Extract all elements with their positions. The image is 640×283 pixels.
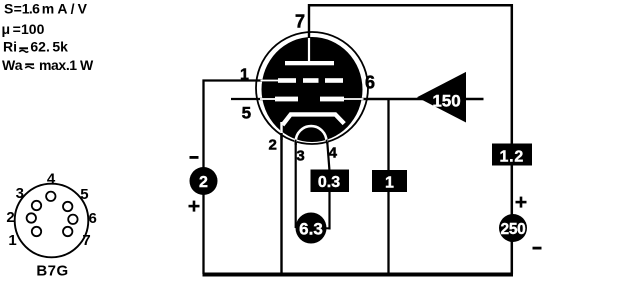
tube grid2 leads: [260, 98, 276, 100]
svg-text:1: 1: [240, 66, 249, 83]
svg-text:A/V: A/V: [57, 0, 90, 16]
load triangle 150: [417, 72, 466, 123]
tube grid1 dashes: [278, 78, 343, 83]
battery V1 plus sign: [189, 201, 200, 212]
wire left vertical through battery 2: [202, 80, 204, 275]
resistor box 1: [372, 170, 407, 192]
svg-text:6: 6: [365, 73, 375, 93]
B7G base outline: [15, 184, 89, 258]
svg-text:1.2: 1.2: [499, 148, 524, 165]
svg-text:1.6: 1.6: [22, 0, 40, 16]
svg-text:2: 2: [199, 174, 208, 191]
wire stub 6.3 right: [324, 227, 331, 229]
battery V1 minus sign: [190, 156, 199, 159]
battery V2 plus sign: [516, 197, 527, 208]
svg-text:1: 1: [8, 232, 16, 249]
svg-text:3: 3: [16, 185, 24, 202]
svg-text:6: 6: [89, 210, 97, 227]
svg-text:7: 7: [295, 11, 305, 31]
wire bottom rail: [203, 273, 514, 277]
svg-text:2: 2: [269, 136, 277, 153]
wire heater pin4 vertical to 0.3 box: [327, 132, 330, 171]
wire from 0.3 box down to 6.3 source: [328, 191, 330, 230]
resistor box 1.2: [492, 144, 532, 166]
svg-text:2: 2: [6, 209, 14, 226]
B7G pin hole 6: [68, 215, 77, 224]
B7G pin hole 4: [46, 192, 55, 201]
svg-text:Wa: Wa: [2, 57, 23, 73]
wire grid pin1 horizontal: [203, 79, 271, 81]
tube anode plate bar: [285, 61, 334, 65]
B7G pin hole 5: [63, 202, 72, 211]
svg-text:5: 5: [242, 103, 251, 122]
svg-text:7: 7: [82, 232, 90, 249]
spec text line mu=100: [2, 21, 45, 37]
heater source 6.3 circle: [296, 213, 327, 244]
tube envelope U1 outline: [256, 32, 368, 144]
svg-text:62.: 62.: [30, 39, 49, 55]
svg-text:5: 5: [80, 186, 88, 203]
resistor box 0.3: [311, 170, 350, 193]
wire anode pin6 horizontal to output: [355, 98, 484, 100]
svg-text:B7G: B7G: [36, 263, 68, 280]
wire right rail vertical: [511, 4, 514, 274]
tube grid1 lead: [261, 80, 280, 82]
B7G pin hole 1: [32, 227, 41, 236]
svg-text:=: =: [13, 21, 21, 37]
B7G pin hole 2: [27, 213, 36, 222]
svg-text:S: S: [4, 0, 13, 16]
wire pin7 vertical: [308, 4, 310, 45]
svg-text:max.1: max.1: [39, 57, 77, 73]
tube grid2 dashes: [275, 97, 344, 102]
svg-text:=: =: [14, 0, 22, 16]
svg-text:Ri: Ri: [3, 39, 17, 55]
B7G pin hole 3: [32, 201, 41, 210]
wire pin5 stub: [231, 98, 270, 100]
tube ring crossing stubs: [256, 31, 368, 145]
battery V1 2V source circle: [190, 167, 218, 195]
svg-text:100: 100: [21, 21, 45, 37]
wire anode load vertical through box 1: [387, 98, 389, 274]
tube cathode lead pin2: [280, 122, 282, 133]
B7G pin hole 7: [63, 227, 72, 236]
wire heater pin3 vertical: [295, 132, 297, 228]
svg-text:5k: 5k: [52, 39, 68, 55]
svg-text:4: 4: [47, 170, 56, 187]
spec text line S=1.6 mA/V: [4, 0, 90, 16]
battery V2 minus sign: [533, 247, 542, 250]
svg-text:m: m: [42, 0, 54, 16]
tube anode lead pin7: [308, 38, 310, 62]
svg-text:0.3: 0.3: [318, 174, 340, 191]
tube interior disc: [262, 37, 363, 142]
svg-text:μ: μ: [2, 21, 11, 37]
battery V2 250V source circle: [499, 214, 527, 242]
svg-text:250: 250: [501, 221, 526, 238]
svg-text:3: 3: [296, 148, 304, 165]
svg-text:6.3: 6.3: [299, 219, 323, 238]
tube heater arc: [296, 126, 327, 141]
svg-text:150: 150: [432, 91, 460, 110]
svg-text:4: 4: [329, 144, 338, 161]
svg-text:1: 1: [385, 174, 394, 191]
wire cathode pin2 vertical: [280, 128, 282, 274]
tube cathode hat: [283, 114, 345, 125]
svg-text:W: W: [80, 57, 94, 73]
wire top from pin7 to right rail: [308, 4, 513, 7]
